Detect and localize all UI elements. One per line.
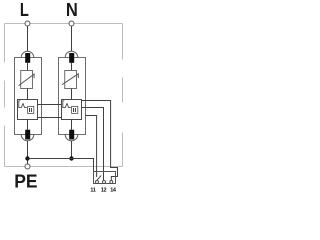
svg-text:12: 12 bbox=[101, 187, 107, 193]
wire monitoring device to bottom disconnector (L module) bbox=[27, 119, 29, 130]
PE bus junction dot (L module) bbox=[25, 156, 29, 160]
remote signalling contact FM box bbox=[94, 172, 116, 184]
node L (input terminal circle) bbox=[25, 21, 30, 26]
impulse current waveform glyph (N module) bbox=[63, 101, 71, 108]
wire FM contact feed 1 bbox=[85, 116, 97, 178]
wire disconnector to varistor (N module) bbox=[71, 63, 73, 71]
status indicator window (L module) bbox=[28, 106, 34, 113]
thermal disconnector arc top (N module) bbox=[65, 51, 78, 57]
PE bus wire bbox=[28, 159, 94, 172]
thermal disconnector arc bottom (N module) bbox=[65, 135, 78, 141]
terminal label L bbox=[20, 0, 29, 20]
thermal disconnector contact (L module bottom) bbox=[25, 130, 30, 140]
varistor diagonal stroke (L module) bbox=[19, 74, 34, 86]
terminal label PE bbox=[14, 171, 37, 192]
node N (input terminal circle) bbox=[69, 21, 74, 26]
varistor (N module) bbox=[65, 71, 77, 89]
thermal disconnector arc bottom (L module) bbox=[21, 135, 34, 141]
wire N module to PE bus bbox=[71, 141, 73, 159]
thermal disconnector contact (N module bottom) bbox=[69, 130, 74, 140]
svg-text:N: N bbox=[66, 0, 78, 20]
FM contact lever bbox=[97, 175, 101, 180]
SPD module box (L path) bbox=[15, 58, 42, 135]
node PE (terminal circle) bbox=[25, 164, 30, 169]
wire monitoring link upper (L module to N module) bbox=[38, 104, 62, 106]
PE bus junction dot (N module) bbox=[69, 156, 73, 160]
svg-text:11: 11 bbox=[90, 187, 95, 193]
wire FM contact feed 3 bbox=[82, 101, 118, 181]
enclosure outline left edge (dashed) bbox=[4, 24, 6, 167]
status indicator bars (L module) bbox=[30, 108, 32, 112]
FM contact stub terminal 1 bbox=[96, 172, 98, 177]
wire disconnector to varistor (L module) bbox=[27, 63, 29, 71]
status indicator window (N module) bbox=[72, 106, 78, 113]
SPD module box (N path) bbox=[59, 58, 86, 135]
FM contact circle 3 bbox=[110, 181, 113, 184]
svg-text:L: L bbox=[20, 0, 29, 20]
enclosure outline top edge (L-N bus line) bbox=[5, 23, 123, 25]
status indicator bars (N module) bbox=[74, 108, 76, 112]
thermal disconnector contact (L module top) bbox=[25, 53, 30, 63]
FM contact circle 1 bbox=[96, 181, 99, 184]
wire varistor to monitoring device (N module) bbox=[71, 89, 73, 100]
wire N node to right module bbox=[71, 26, 73, 51]
thermal disconnector contact (N module top) bbox=[69, 53, 74, 63]
terminal label N bbox=[66, 0, 78, 20]
varistor diagonal stroke (N module) bbox=[62, 74, 78, 85]
enclosure outline right edge (dashed) bbox=[122, 24, 124, 167]
wire monitoring device to bottom disconnector (N module) bbox=[71, 119, 73, 130]
wire varistor to monitoring device (L module) bbox=[27, 89, 29, 100]
enclosure outline bottom edge bbox=[5, 166, 123, 168]
wire monitoring link lower (L module to N module) bbox=[38, 117, 62, 119]
monitoring device box (N module) bbox=[62, 100, 82, 120]
wire FM contact feed 2 bbox=[82, 108, 104, 181]
impulse current waveform glyph (L module) bbox=[19, 101, 27, 108]
wire L node to left module bbox=[27, 26, 29, 51]
thermal disconnector arc top (L module) bbox=[21, 51, 34, 57]
monitoring device box (L module) bbox=[18, 100, 38, 120]
varistor (L module) bbox=[21, 71, 33, 89]
svg-text:PE: PE bbox=[14, 171, 37, 192]
FM contact circle 2 bbox=[103, 181, 106, 184]
wire L module to PE node bbox=[27, 141, 29, 164]
